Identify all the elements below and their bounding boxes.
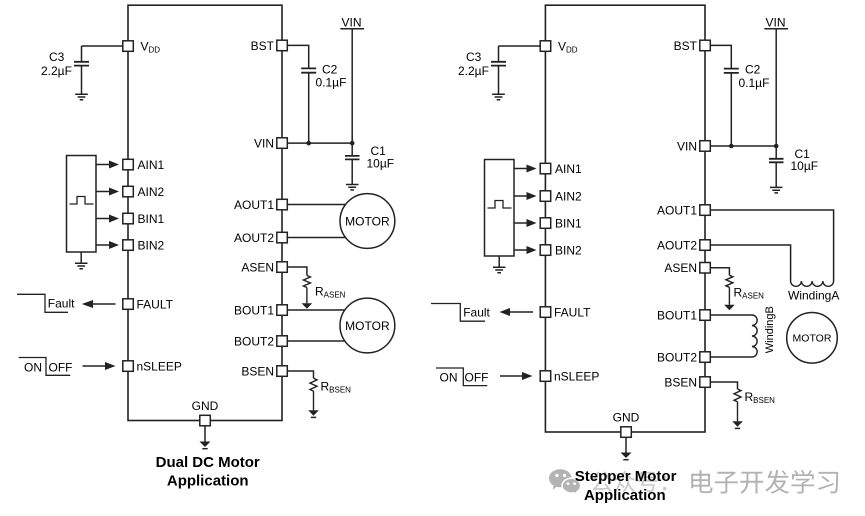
arrow into AIN2' [514,195,527,197]
svg-text:BIN1: BIN1 [138,212,165,226]
svg-text:C3: C3 [466,50,482,64]
caption right [575,468,677,504]
svg-text:VIN: VIN [342,15,362,29]
svg-text:Dual DC Motor: Dual DC Motor [156,454,260,471]
arrow out of FAULT' [510,311,534,313]
pin BOUT2 [277,336,288,347]
pin AIN2 [123,186,134,197]
svg-text:FAULT: FAULT [554,306,591,320]
arrow into nSLEEP [83,365,106,367]
ground (RASEN' arrow) [724,305,735,311]
wire AOUT2 to WindingA left [710,245,790,281]
svg-text:BIN2: BIN2 [138,239,165,253]
pin BOUT2' [700,352,711,363]
pin VIN [277,138,288,149]
C1 value label [367,144,395,170]
wechat icon small bubble eyes [567,482,570,485]
arrow into AIN1' [514,168,527,170]
pin ASEN' [700,263,711,274]
wire ASEN' to RASEN' [710,268,729,276]
pin AOUT2 [277,232,288,243]
ground (C1 earth) [346,185,359,191]
svg-text:MOTOR: MOTOR [345,319,390,333]
svg-text:AOUT1: AOUT1 [657,204,697,218]
C2' value label [739,63,770,90]
watermark text char 电 [691,470,712,493]
ground (pulse box' earth) [498,256,500,267]
svg-text:BST: BST [251,39,275,53]
pin AOUT2' [700,240,711,251]
wechat icon big bubble eyes [555,474,558,477]
pin BST' [700,40,711,51]
pin AIN1 [123,159,134,170]
resistor RBSEN' [734,389,741,421]
svg-text:WindingB: WindingB [764,306,776,353]
arrow into AIN2 [96,191,110,193]
pin GND [200,415,211,426]
pin ASEN [277,262,288,273]
svg-text:Stepper Motor: Stepper Motor [575,468,677,485]
C3 value label [41,50,72,78]
svg-text:C3: C3 [49,50,65,64]
watermark dianzi kaifa xuexi text [691,470,838,494]
svg-text:RASEN: RASEN [315,285,346,300]
svg-text:AOUT2: AOUT2 [234,231,274,245]
svg-text:WindingA: WindingA [788,289,839,303]
wire ASEN to RASEN [287,267,307,276]
pin VDD' [540,41,551,52]
inductor WindingB [752,315,757,357]
svg-text:OFF: OFF [49,360,73,374]
pin BIN2 [123,240,134,251]
resistor RBSEN [310,378,317,410]
arrow into nSLEEP' [500,375,523,377]
svg-text:2.2µF: 2.2µF [41,64,72,78]
svg-text:BOUT2: BOUT2 [657,351,697,365]
ON/OFF waveform symbol' [436,368,487,386]
svg-text:GND: GND [613,411,640,425]
junction node [306,141,311,146]
watermark text char 开 [740,472,763,494]
wire BOUT2 to motor2 [287,340,345,342]
svg-text:MOTOR: MOTOR [345,214,390,228]
svg-text:AOUT1: AOUT1 [234,198,274,212]
wire VDD to C3' [499,46,541,61]
pin AIN2' [540,191,551,202]
wechat icon big bubble [549,469,572,489]
arrow into BIN2 [96,244,110,246]
ground (pulse box earth) [80,252,82,263]
svg-text:2.2µF: 2.2µF [458,64,489,78]
VIN supply rail [342,15,362,29]
svg-text:BOUT1: BOUT1 [234,304,274,318]
capacitor C2' [724,69,739,73]
pin FAULT [123,299,134,310]
pulse source box' [485,160,515,257]
capacitor C3 [74,62,89,66]
capacitor C2 [301,68,316,72]
svg-text:BSEN: BSEN [241,365,274,379]
svg-text:VIN: VIN [677,139,697,153]
motor M2 [340,298,395,353]
pin nSLEEP [123,361,134,372]
pin FAULT' [540,307,551,318]
capacitor C1 [345,156,360,160]
pin BIN1' [540,218,551,229]
wire BST to C2 [287,45,308,68]
ON/OFF waveform symbol [19,358,71,376]
wire BOUT2 to WindingB bottom [710,356,752,358]
pulse waveform symbol' [488,201,512,209]
wire BSEN' to RBSEN' [710,382,737,389]
svg-text:MOTOR: MOTOR [793,333,832,345]
C2 value label [316,63,347,90]
wire VIN' node [710,145,776,147]
junction node [774,144,779,149]
pin AIN1' [540,163,551,174]
svg-text:BIN1: BIN1 [555,217,582,231]
svg-text:Fault: Fault [463,306,490,320]
arrow into BIN1' [514,222,527,224]
svg-text:C2: C2 [322,63,338,77]
pin BSEN' [700,377,711,388]
svg-text:VIN: VIN [254,136,274,150]
ground (C3 earth) [75,94,88,100]
svg-text:0.1µF: 0.1µF [316,76,347,90]
svg-text:ASEN: ASEN [664,261,697,275]
wire BST' to C2' [710,45,731,68]
pin AOUT1 [277,199,288,210]
pulse source box [67,156,97,253]
wire AOUT2 to motor1 [287,237,345,239]
wechat icon small bubble [562,478,581,495]
svg-text:GND: GND [192,399,219,413]
svg-text:10µF: 10µF [367,156,395,170]
svg-text:10µF: 10µF [791,159,819,173]
arrow into BIN2' [514,249,527,251]
wire AOUT1 to WindingA right [710,210,833,281]
pin GND' [621,427,632,438]
svg-text:BST: BST [674,39,698,53]
svg-text:FAULT: FAULT [137,298,174,312]
pin BIN2' [540,245,551,256]
C1' value label [791,147,819,173]
svg-text:nSLEEP: nSLEEP [137,360,182,374]
pin BOUT1 [277,305,288,316]
resistor RASEN' [726,275,733,305]
watermark text char 学 [792,470,815,494]
svg-text:RASEN: RASEN [734,286,765,301]
wire VDD to C3 [82,46,123,61]
arrow out of FAULT [92,303,116,305]
ground (RBSEN arrow) [308,410,319,416]
svg-text:OFF: OFF [465,371,489,385]
svg-text:Application: Application [167,472,249,489]
ground (GND' arrow) [625,437,627,452]
watermark text char 号 [637,472,657,492]
watermark text char 发 [765,470,789,494]
Fault waveform symbol [17,294,68,312]
capacitor C1' [769,159,784,163]
svg-text:BOUT2: BOUT2 [234,335,274,349]
ground (C3' earth) [492,94,505,100]
wire BOUT1 to motor2 [287,309,345,311]
svg-text:RBSEN: RBSEN [745,390,776,405]
pin BST [277,40,288,51]
caption left [156,454,260,489]
junction node [729,144,734,149]
wire BSEN to RBSEN [287,371,313,378]
arrow into BIN1 [96,218,110,220]
svg-text:BSEN: BSEN [664,376,697,390]
ground (GND arrow) [204,426,206,442]
watermark text char 习 [818,472,838,493]
svg-text:ON: ON [440,371,458,385]
wire VIN node [287,142,352,144]
svg-text:0.1µF: 0.1µF [739,76,770,90]
pulse waveform symbol [70,197,94,205]
VIN' supply rail [766,15,786,29]
ground (C1' earth) [770,187,783,193]
Fault waveform symbol' [431,304,485,322]
svg-text:VIN: VIN [766,15,786,29]
svg-text:RBSEN: RBSEN [321,380,352,395]
motor M1 [340,194,395,249]
pin VDD [123,41,134,52]
IC U1 body [128,5,282,420]
svg-text:AOUT2: AOUT2 [657,239,697,253]
watermark text char 子 [715,472,738,494]
svg-text:AIN1: AIN1 [138,158,165,172]
wire AOUT1 to motor1 [287,204,345,206]
pin VIN' [700,141,711,152]
svg-text:ASEN: ASEN [241,261,274,275]
watermark text char 公 [591,471,612,492]
svg-text:Fault: Fault [48,297,75,311]
svg-text:C2: C2 [745,63,761,77]
watermark text char 众 [614,471,635,492]
inductor WindingA [791,281,834,286]
ground (RASEN arrow) [302,303,313,309]
svg-text:nSLEEP: nSLEEP [554,370,599,384]
junction node [350,141,355,146]
watermark wechat icon [549,469,581,495]
pin BSEN [277,366,288,377]
wire BOUT1 to WindingB top [710,314,752,316]
pin BOUT1' [700,310,711,321]
motor M3 [787,313,838,364]
svg-text:Application: Application [584,487,666,504]
svg-text:AIN1: AIN1 [555,162,582,176]
capacitor C3' [491,62,506,66]
svg-text:BIN2: BIN2 [555,244,582,258]
pin nSLEEP' [540,371,551,382]
watermark gongzhonghao text [591,471,666,492]
C3' value label [458,50,489,78]
watermark text char ： [663,476,667,491]
arrow into AIN1 [96,164,110,166]
ground (RBSEN' arrow) [732,421,743,427]
pin BIN1 [123,213,134,224]
resistor RASEN [303,276,310,304]
svg-text:BOUT1: BOUT1 [657,309,697,323]
svg-text:AIN2: AIN2 [555,190,582,204]
IC U2 body [545,5,705,432]
svg-text:AIN2: AIN2 [138,185,165,199]
svg-text:ON: ON [24,360,42,374]
pin AOUT1' [700,205,711,216]
